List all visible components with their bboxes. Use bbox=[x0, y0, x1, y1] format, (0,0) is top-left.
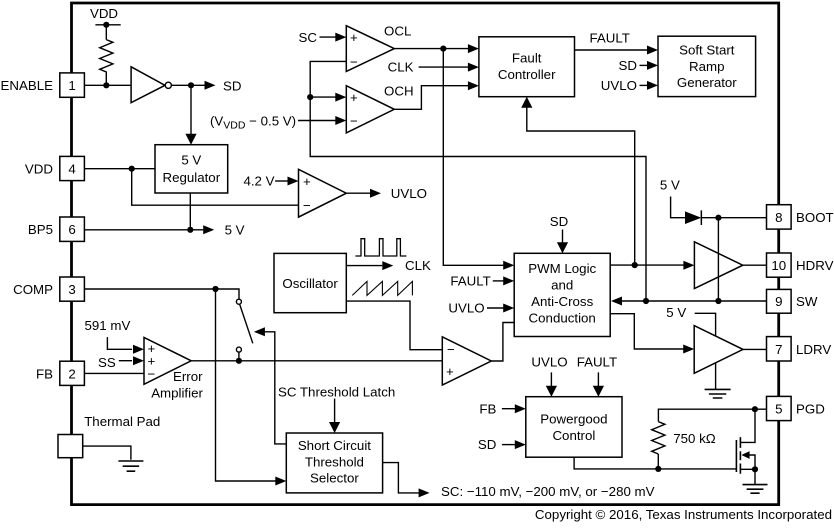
svg-text:−: − bbox=[148, 366, 156, 381]
svg-text:4.2 V: 4.2 V bbox=[243, 174, 274, 189]
svg-text:2: 2 bbox=[68, 366, 75, 381]
pin 3 COMP bbox=[60, 277, 85, 301]
wire UVLO to soft start bbox=[640, 84, 648, 86]
svg-text:Regulator: Regulator bbox=[162, 170, 220, 185]
wire oscillator ramp to PWM comparator bbox=[346, 301, 442, 350]
svg-text:SC: SC bbox=[299, 30, 318, 45]
wire 591mV to error amplifier bbox=[107, 337, 132, 349]
transistor Q1 MOSFET gate bar bbox=[735, 440, 737, 472]
svg-text:SD: SD bbox=[223, 79, 241, 94]
wire 5V to diode bbox=[671, 197, 685, 218]
svg-text:and: and bbox=[551, 278, 573, 293]
arrow FAULT into powergood bbox=[593, 386, 604, 397]
svg-text:Conduction: Conduction bbox=[529, 311, 596, 326]
op-amp error amplifier bbox=[144, 337, 191, 384]
svg-text:Selector: Selector bbox=[310, 471, 359, 486]
waveform CLK square wave bbox=[355, 239, 406, 256]
junction MOSFET source bbox=[752, 466, 758, 472]
svg-text:VDD: VDD bbox=[90, 6, 118, 21]
junction resistor R2 gate line bbox=[655, 466, 661, 472]
junction ENABLE resistor bbox=[103, 82, 109, 88]
svg-text:SD: SD bbox=[550, 214, 568, 229]
svg-text:5 V: 5 V bbox=[660, 178, 680, 193]
arrow SD output bbox=[205, 81, 216, 90]
transistor Q1 channel segments bbox=[739, 437, 741, 474]
svg-text:5 V: 5 V bbox=[181, 153, 201, 168]
wire SC threshold latch arrow bbox=[334, 399, 336, 423]
svg-text:Control: Control bbox=[552, 428, 595, 443]
pin 6 BP5 bbox=[60, 217, 85, 241]
svg-text:Threshold: Threshold bbox=[305, 454, 364, 469]
wire OCH output to fault controller bbox=[394, 86, 468, 110]
pin 9 SW bbox=[767, 289, 792, 313]
wire COMP node to short circuit selector bbox=[216, 289, 276, 481]
ground thermal pad bbox=[118, 461, 143, 471]
svg-text:Soft Start: Soft Start bbox=[679, 43, 735, 58]
svg-text:FAULT: FAULT bbox=[577, 354, 617, 369]
wire 5V stub to LDRV driver bbox=[695, 313, 716, 336]
buffer LDRV driver bbox=[694, 326, 743, 374]
wire 4.2V to comparator plus bbox=[275, 180, 287, 182]
arrow SC threshold latch bbox=[329, 422, 340, 433]
arrow FB into powergood bbox=[515, 404, 526, 413]
arrow COMP into short circuit selector bbox=[275, 477, 286, 486]
svg-text:−: − bbox=[350, 114, 358, 129]
pin 1 ENABLE bbox=[60, 73, 85, 97]
arrow OCL node into PWM logic bbox=[503, 261, 514, 270]
resistor R2 750 kOhm bbox=[652, 422, 665, 454]
wire VDD pin4 to regulator bbox=[84, 168, 155, 170]
svg-text:SD: SD bbox=[478, 437, 496, 452]
node SD bbox=[188, 82, 194, 88]
svg-text:−: − bbox=[350, 55, 358, 70]
svg-text:UVLO: UVLO bbox=[601, 78, 637, 93]
resistor R1 VDD pullup bbox=[100, 40, 113, 86]
svg-text:−: − bbox=[303, 198, 311, 213]
arrow UVLO into soft start bbox=[647, 81, 658, 90]
comparator UVLO 4.2V bbox=[299, 169, 347, 217]
arrow 4.2V into comparator bbox=[288, 177, 299, 186]
wire switch bottom contact stub bbox=[238, 352, 240, 361]
wire VDD stub bbox=[95, 24, 120, 26]
wire PWM logic to LDRV driver bbox=[610, 314, 684, 349]
wire MOSFET source to ground bbox=[754, 469, 756, 484]
svg-text:Generator: Generator bbox=[677, 75, 737, 90]
arrow CLK oscillator output bbox=[382, 261, 393, 270]
wire HDRV signal to fault controller bbox=[527, 107, 635, 265]
svg-text:5 V: 5 V bbox=[666, 305, 686, 320]
pin 8 BOOT bbox=[767, 205, 792, 229]
wire regulator output down bbox=[189, 193, 191, 230]
svg-text:OCL: OCL bbox=[384, 24, 411, 39]
wire SC to OCL plus bbox=[320, 36, 336, 38]
junction PWM output HDRV bbox=[632, 262, 638, 268]
svg-text:5: 5 bbox=[775, 402, 782, 417]
pin 10 HDRV bbox=[767, 253, 792, 277]
svg-text:VDD: VDD bbox=[25, 162, 53, 177]
svg-text:Amplifier: Amplifier bbox=[151, 385, 203, 400]
junction VDD pin4 bbox=[129, 166, 135, 172]
svg-text:SC Threshold Latch: SC Threshold Latch bbox=[278, 385, 395, 400]
arrow SW into PWM logic bbox=[611, 297, 622, 306]
transistor Q1 drain connection bbox=[740, 409, 755, 442]
wire SD to soft start bbox=[640, 64, 648, 66]
wire VDD node to UVLO comparator minus bbox=[132, 169, 299, 206]
arrow SC output bbox=[419, 488, 430, 497]
wire CLK to fault controller bbox=[419, 66, 469, 68]
box PWM logic and anti-cross conduction bbox=[514, 253, 610, 336]
diode D1 bootstrap bbox=[685, 211, 701, 224]
svg-text:FAULT: FAULT bbox=[450, 273, 490, 288]
wire SD node down to regulator bbox=[190, 85, 192, 134]
wire diode to BOOT pin8 bbox=[701, 217, 766, 219]
wire resistor R1 top lead bbox=[105, 25, 107, 40]
arrow SD into PWM logic bbox=[557, 242, 568, 253]
arrow into LDRV driver bbox=[683, 345, 694, 354]
svg-text:Thermal Pad: Thermal Pad bbox=[84, 414, 160, 429]
arrow SS into error amplifier bbox=[133, 356, 144, 365]
wire PWM logic output to HDRV driver bbox=[610, 264, 684, 266]
svg-text:+: + bbox=[446, 364, 454, 379]
wire FB pin2 to error amplifier bbox=[84, 372, 144, 374]
wire PWM comparator output to PWM logic bbox=[491, 323, 514, 362]
arrow UVLO into PWM logic bbox=[503, 304, 514, 313]
svg-text:−: − bbox=[447, 342, 455, 357]
svg-text:BOOT: BOOT bbox=[796, 210, 834, 225]
transistor Q1 body arrow bbox=[741, 451, 749, 459]
svg-text:FAULT: FAULT bbox=[590, 31, 630, 46]
svg-text:Short Circuit: Short Circuit bbox=[298, 438, 371, 453]
wire ENABLE pin1 to inverter bbox=[84, 84, 131, 86]
wire UVLO to powergood bbox=[550, 372, 552, 386]
thermal pad bbox=[58, 435, 83, 458]
svg-text:1: 1 bbox=[68, 78, 75, 93]
wire PGD pin5 line and resistor top lead bbox=[658, 409, 766, 421]
svg-text:PWM Logic: PWM Logic bbox=[528, 261, 596, 276]
arrow OCL into fault controller bbox=[468, 44, 479, 53]
arrow SD into powergood bbox=[515, 440, 526, 449]
pin 5 PGD bbox=[767, 396, 792, 420]
svg-text:Ramp: Ramp bbox=[689, 59, 724, 74]
wire OCL output to fault controller bbox=[394, 48, 468, 50]
switch S1 contacts and blade bbox=[236, 299, 241, 304]
arrow 5V output bbox=[203, 225, 214, 234]
wire powergood output to MOSFET gate bbox=[574, 457, 736, 469]
wire short circuit selector output bbox=[383, 463, 420, 493]
wire error amplifier output to PWM comparator bbox=[191, 360, 442, 362]
svg-text:Oscillator: Oscillator bbox=[282, 276, 338, 291]
junction COMP bbox=[212, 286, 218, 292]
box powergood control bbox=[526, 397, 622, 458]
arrow CLK into fault controller bbox=[468, 63, 479, 72]
svg-text:+: + bbox=[350, 90, 358, 105]
svg-text:HDRV: HDRV bbox=[796, 258, 834, 273]
arrow switch control bbox=[254, 327, 265, 336]
wire LDRV driver output to pin7 bbox=[743, 348, 767, 350]
wire FB to powergood bbox=[502, 408, 515, 410]
junction BP5 regulator output bbox=[187, 227, 193, 233]
inverter U1 bbox=[131, 67, 165, 103]
wire FAULT to PWM logic bbox=[493, 280, 504, 282]
wire HDRV driver output to pin10 bbox=[743, 264, 767, 266]
wire SD to PWM logic bbox=[562, 230, 564, 243]
junction SW HDRV driver bbox=[715, 298, 721, 304]
junction BOOT diode bbox=[715, 215, 721, 221]
comparator PWM bbox=[442, 337, 491, 385]
arrow into OCH minus bbox=[335, 116, 346, 125]
box fault controller bbox=[479, 37, 575, 97]
svg-text:UVLO: UVLO bbox=[391, 186, 427, 201]
svg-text:BP5: BP5 bbox=[28, 222, 53, 237]
box 5V regulator bbox=[155, 145, 228, 193]
buffer HDRV driver bbox=[694, 242, 742, 289]
svg-text:FB: FB bbox=[479, 401, 496, 416]
wire BOOT node through HDRV driver to SW bbox=[717, 218, 719, 301]
wire Vvdd-0.5V to OCH minus bbox=[298, 120, 336, 122]
arrow SC into OCL bbox=[335, 33, 346, 42]
box short circuit threshold selector bbox=[286, 433, 382, 493]
wire SW pin9 to PWM logic bbox=[622, 300, 767, 302]
wire FAULT to powergood bbox=[597, 372, 599, 386]
svg-text:Anti-Cross: Anti-Cross bbox=[531, 294, 593, 309]
svg-text:CLK: CLK bbox=[405, 258, 431, 273]
svg-text:591 mV: 591 mV bbox=[85, 318, 131, 333]
wire UVLO to PWM logic bbox=[487, 307, 504, 309]
junction OCH plus bbox=[307, 94, 313, 100]
pin 7 LDRV bbox=[767, 337, 792, 361]
node OCL output bbox=[440, 46, 446, 52]
arrow into OCH plus bbox=[335, 93, 346, 102]
svg-text:8: 8 bbox=[775, 210, 782, 225]
svg-text:SC: −110 mV, −200 mV, or −280: SC: −110 mV, −200 mV, or −280 mV bbox=[441, 484, 655, 499]
svg-text:Fault: Fault bbox=[512, 51, 542, 66]
ground MOSFET source bbox=[743, 485, 768, 494]
wire SS to error amplifier bbox=[119, 360, 132, 362]
box soft start ramp generator bbox=[658, 36, 756, 96]
wire BP5 pin6 to 5V arrow bbox=[84, 229, 203, 231]
svg-text:Powergood: Powergood bbox=[540, 411, 607, 426]
wire LDRV driver ground stub bbox=[715, 363, 717, 390]
comparator OCH bbox=[346, 86, 394, 133]
wire OCH plus branch bbox=[310, 96, 336, 98]
junction switch bottom on EA output bbox=[236, 358, 242, 364]
svg-text:LDRV: LDRV bbox=[796, 342, 831, 357]
svg-text:Controller: Controller bbox=[498, 67, 556, 82]
arrow UVLO output bbox=[370, 189, 381, 198]
svg-text:5 V: 5 V bbox=[225, 222, 245, 237]
arrow FAULT into PWM logic bbox=[503, 276, 514, 285]
svg-text:FB: FB bbox=[36, 366, 53, 381]
svg-text:UVLO: UVLO bbox=[531, 354, 567, 369]
wire switch control to short circuit selector bbox=[265, 332, 287, 444]
wire resistor R2 bottom lead bbox=[657, 454, 659, 469]
arrow 591mV into error amplifier bbox=[133, 345, 144, 354]
box oscillator bbox=[274, 253, 346, 312]
svg-text:4: 4 bbox=[68, 162, 75, 177]
wire UVLO comparator output bbox=[346, 192, 370, 194]
svg-text:+: + bbox=[350, 30, 358, 45]
svg-text:750 kΩ: 750 kΩ bbox=[673, 431, 716, 446]
svg-text:CLK: CLK bbox=[388, 60, 414, 75]
junction SW rail bbox=[643, 298, 649, 304]
wire oscillator CLK output bbox=[346, 265, 382, 267]
arrow SD into soft start bbox=[647, 61, 658, 70]
arrow HDRV into fault controller bbox=[521, 97, 532, 108]
wire FAULT to soft start bbox=[575, 49, 648, 51]
junction VDD stub bbox=[103, 22, 109, 28]
svg-text:7: 7 bbox=[775, 342, 782, 357]
wire SD to powergood bbox=[502, 444, 515, 446]
svg-text:COMP: COMP bbox=[13, 282, 53, 297]
wire thermal pad to ground bbox=[83, 446, 131, 460]
pin 4 VDD bbox=[60, 156, 85, 180]
wire OCL node down to PWM logic bbox=[443, 49, 503, 266]
svg-text:Copyright © 2016, Texas Instru: Copyright © 2016, Texas Instruments Inco… bbox=[535, 507, 832, 522]
svg-text:UVLO: UVLO bbox=[448, 301, 484, 316]
pin 2 FB bbox=[60, 361, 85, 385]
junction PGD drain bbox=[752, 406, 758, 412]
ground LDRV driver bbox=[705, 389, 731, 398]
svg-text:SS: SS bbox=[98, 355, 116, 370]
svg-text:OCH: OCH bbox=[384, 84, 414, 99]
arrow FAULT into soft start bbox=[647, 46, 658, 55]
svg-text:10: 10 bbox=[771, 258, 786, 273]
svg-text:3: 3 bbox=[68, 282, 75, 297]
svg-text:SW: SW bbox=[796, 294, 818, 309]
svg-text:+: + bbox=[303, 174, 311, 189]
svg-text:9: 9 bbox=[775, 294, 782, 309]
comparator OCL bbox=[346, 26, 394, 72]
arrow into regulator bbox=[185, 134, 196, 145]
arrow OCH into fault controller bbox=[468, 81, 479, 90]
svg-text:ENABLE: ENABLE bbox=[1, 78, 54, 93]
svg-text:Error: Error bbox=[173, 369, 203, 384]
svg-text:SD: SD bbox=[619, 58, 637, 73]
wire inverter output to SD node bbox=[171, 84, 204, 86]
svg-text:PGD: PGD bbox=[796, 402, 825, 417]
net SW feedback rail to OCL minus and OCH plus bbox=[310, 61, 646, 301]
arrow UVLO into powergood bbox=[546, 386, 557, 397]
svg-text:6: 6 bbox=[68, 222, 75, 237]
transistor Q1 source and body connection bbox=[740, 455, 755, 469]
arrow into HDRV driver bbox=[683, 261, 694, 270]
waveform sawtooth ramp bbox=[352, 281, 412, 295]
wire COMP pin3 to switch bbox=[84, 289, 239, 299]
